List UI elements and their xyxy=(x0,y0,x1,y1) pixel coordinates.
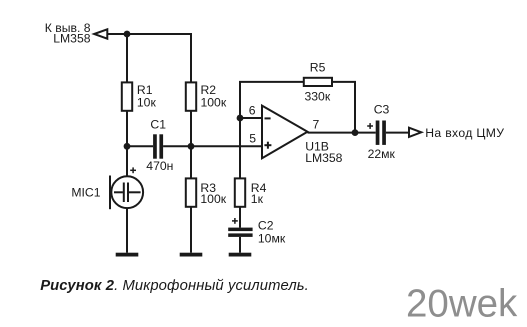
node junction dot C1 right / R3 xyxy=(188,143,195,150)
capacitor C3 xyxy=(376,121,386,145)
svg-text:20wek: 20wek xyxy=(406,283,518,326)
wire C3 to output arrow xyxy=(386,132,409,134)
wire R1 top lead xyxy=(126,33,128,82)
svg-text:Рисунок 2. Микрофонный усилите: Рисунок 2. Микрофонный усилитель. xyxy=(40,278,309,294)
svg-text:22мк: 22мк xyxy=(368,147,396,161)
ground under C2 xyxy=(229,253,252,257)
svg-text:На вход ЦМУ: На вход ЦМУ xyxy=(425,126,504,140)
wire feedback vertical down to R4 top xyxy=(239,82,241,178)
input terminal arrow to pin 8 of LM358 xyxy=(94,29,107,38)
node junction dot top rail xyxy=(124,31,131,38)
wire feedback down to output node xyxy=(354,82,356,133)
resistor R5 xyxy=(304,78,332,86)
svg-text:LM358: LM358 xyxy=(305,151,342,165)
resistor R2 xyxy=(186,82,196,110)
svg-text:R5: R5 xyxy=(310,61,326,75)
resistor R1 xyxy=(122,82,132,110)
wire pin 6 lead xyxy=(240,117,263,119)
node junction dot output / feedback xyxy=(352,129,359,136)
wire C1 left lead xyxy=(127,145,153,147)
microphone MIC1 xyxy=(110,176,143,210)
op-amp non-inverting input plus sign xyxy=(264,142,271,149)
wire MIC1 bottom to ground xyxy=(126,208,128,253)
svg-text:7: 7 xyxy=(313,117,320,131)
svg-text:MIC1: MIC1 xyxy=(71,186,100,200)
wire R3 bottom to ground xyxy=(190,207,192,253)
capacitor C2 plus sign xyxy=(232,218,238,224)
svg-text:100к: 100к xyxy=(201,96,227,110)
svg-text:100к: 100к xyxy=(200,192,226,206)
svg-text:LM358: LM358 xyxy=(53,32,90,46)
resistor R4 xyxy=(235,178,245,206)
output terminal arrow xyxy=(409,128,421,137)
svg-text:330к: 330к xyxy=(305,90,331,104)
svg-text:10к: 10к xyxy=(137,96,157,110)
svg-text:C1: C1 xyxy=(150,117,166,131)
svg-text:C2: C2 xyxy=(258,218,274,232)
wire pin 5 input xyxy=(191,145,263,147)
svg-text:10мк: 10мк xyxy=(258,231,286,245)
wire top rail from input arrow to R2 column xyxy=(108,33,192,35)
wire feedback right horizontal from R5 xyxy=(333,81,357,83)
wire C1 right lead xyxy=(163,145,191,147)
node junction dot C1 left / MIC xyxy=(124,143,131,150)
wire op-amp output to C3 xyxy=(308,132,376,134)
svg-text:1к: 1к xyxy=(251,192,264,206)
svg-text:6: 6 xyxy=(249,104,256,118)
ground under MIC1 xyxy=(116,253,139,257)
resistor R3 xyxy=(186,178,196,206)
op-amp U1B xyxy=(262,106,308,159)
node junction dot pin 6 / feedback xyxy=(237,115,244,122)
wire R2 top lead xyxy=(190,33,192,82)
capacitor C2 xyxy=(228,228,252,237)
svg-text:470н: 470н xyxy=(146,159,173,173)
svg-text:C3: C3 xyxy=(374,103,390,117)
wire R2 bottom to R3 top xyxy=(190,111,192,178)
capacitor C1 xyxy=(153,134,163,158)
wire R1 bottom to MIC1 top xyxy=(126,111,128,176)
op-amp inverting input minus sign xyxy=(265,117,271,119)
capacitor C3 plus sign xyxy=(367,123,373,129)
ground under R3 xyxy=(180,253,203,257)
microphone MIC1 plus sign xyxy=(130,167,136,173)
wire R4 bottom to C2 xyxy=(239,207,241,227)
wire feedback left horizontal to R5 xyxy=(239,81,304,83)
svg-text:5: 5 xyxy=(249,131,256,145)
wire C2 bottom to ground xyxy=(239,237,241,253)
